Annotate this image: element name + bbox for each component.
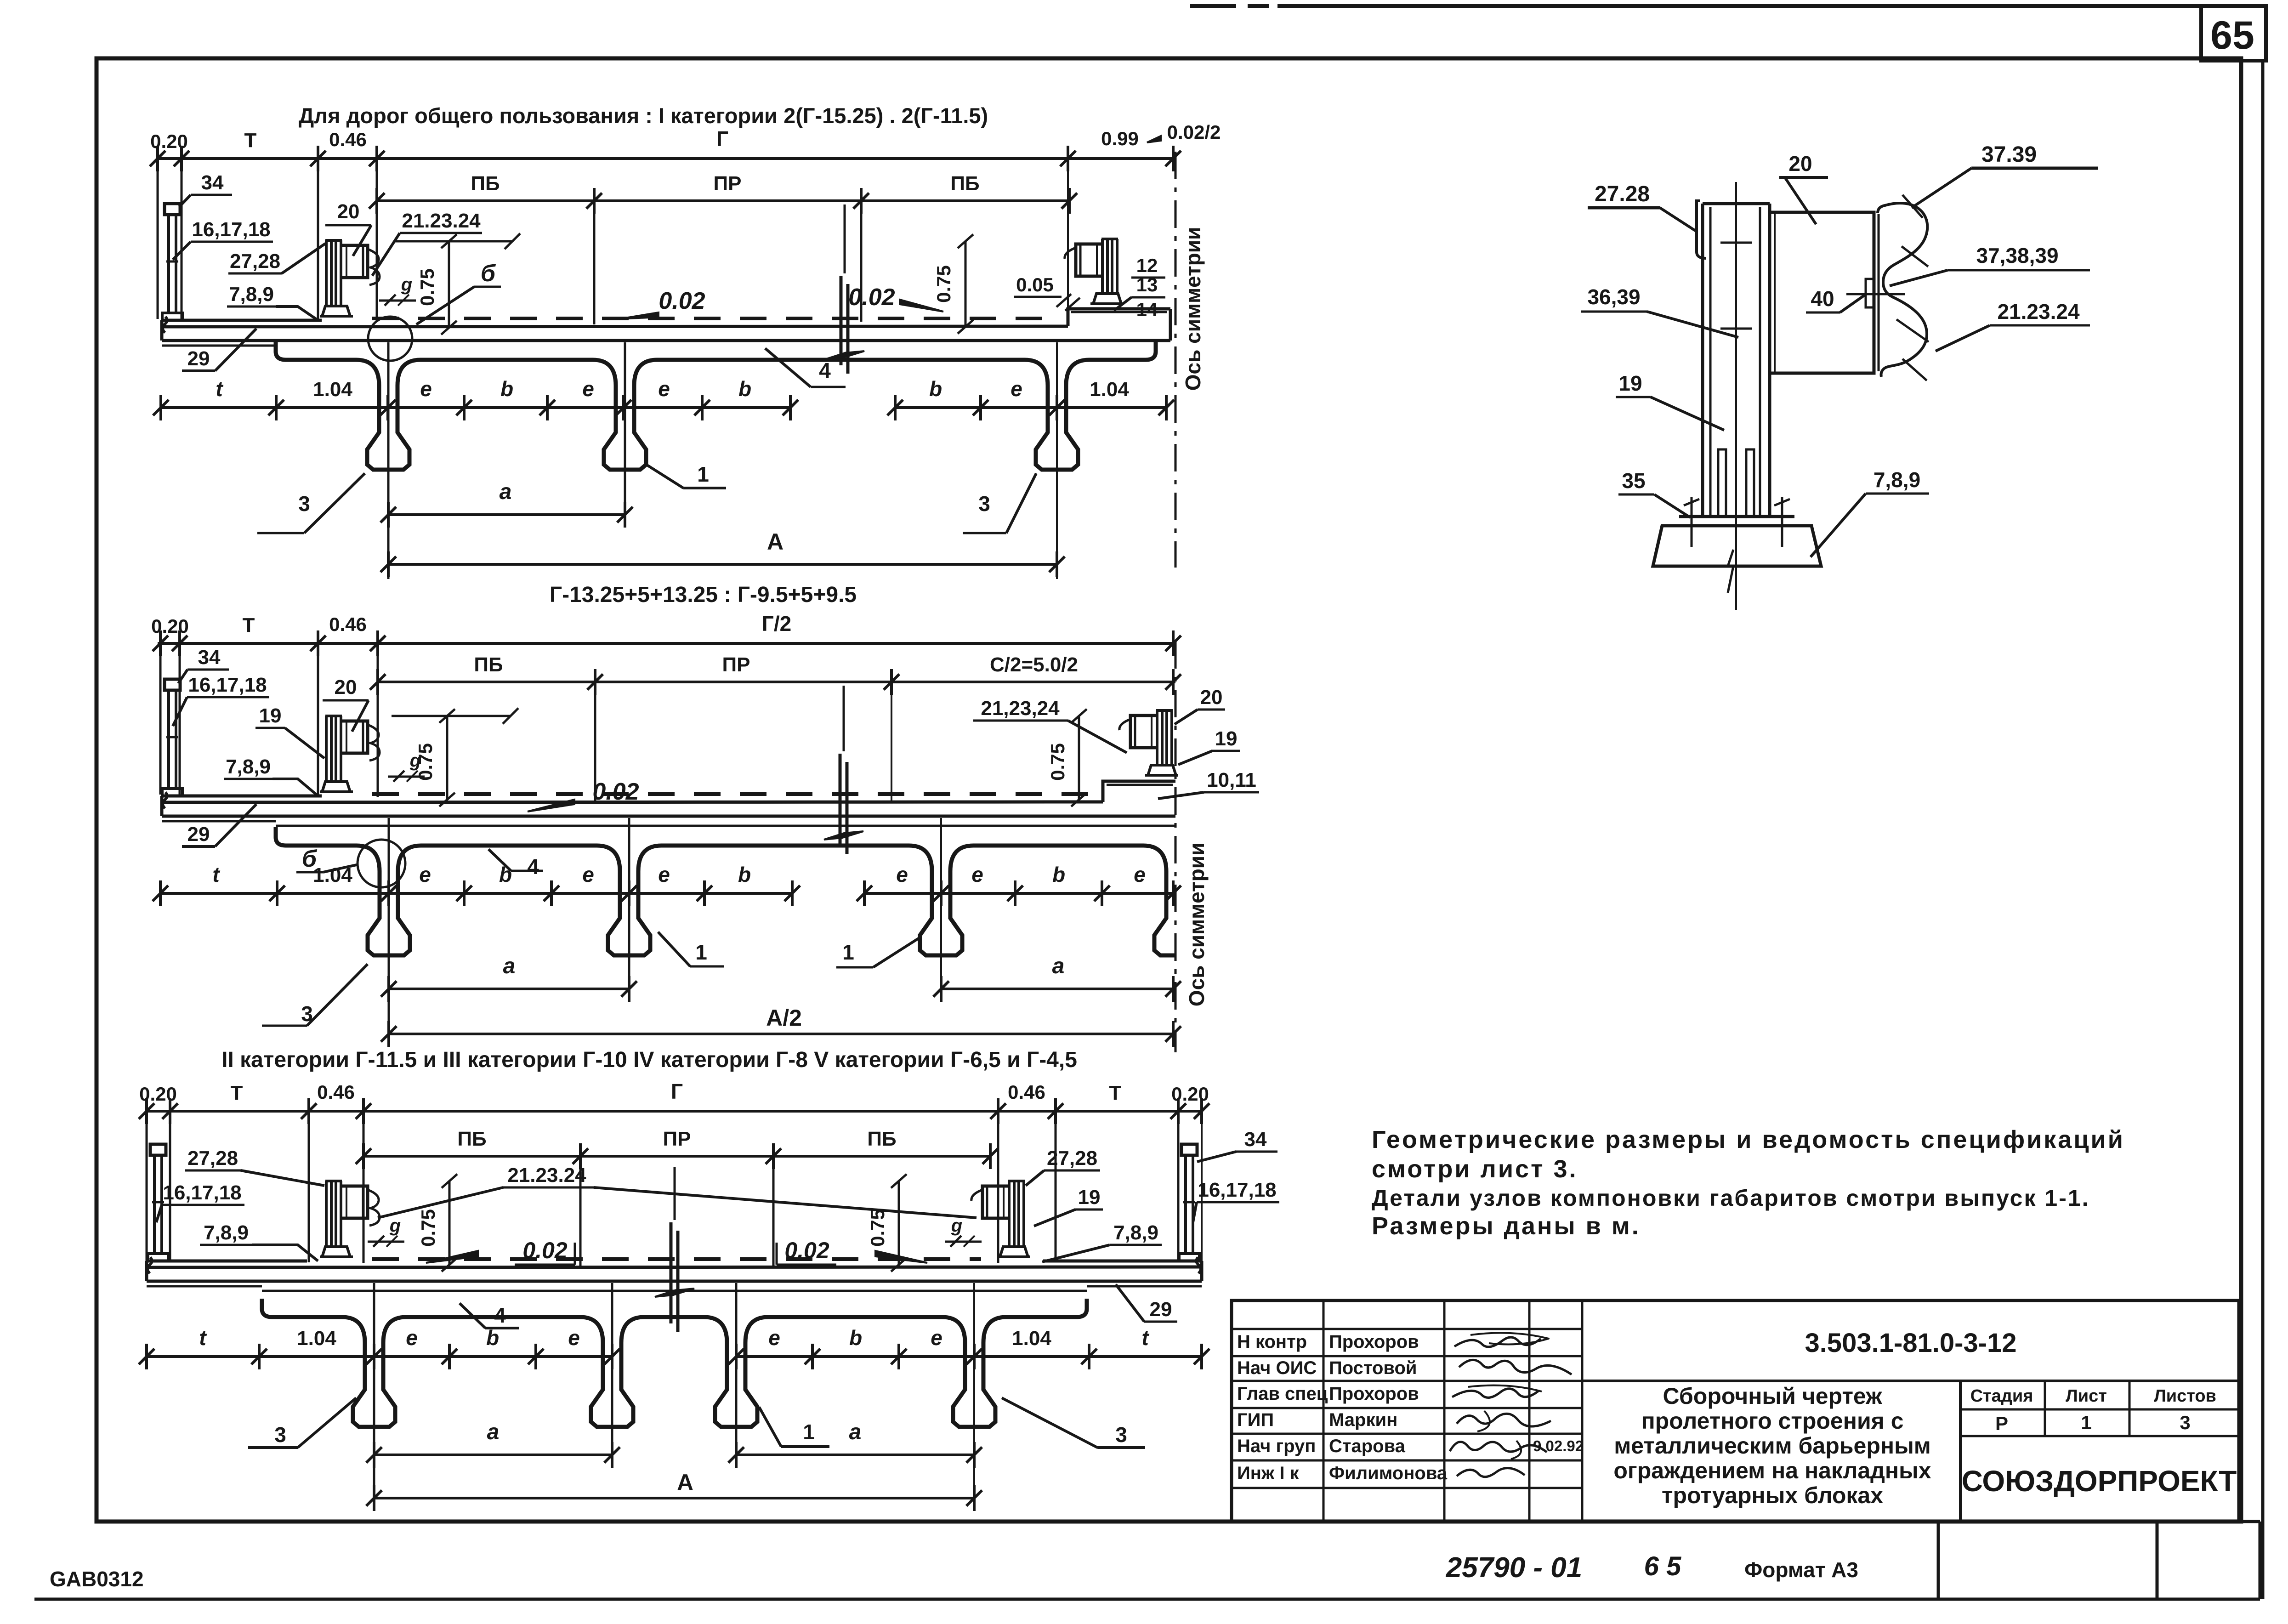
svg-text:0.20: 0.20 — [150, 131, 188, 152]
drawing2 dim line G/2 — [158, 642, 1175, 645]
svg-text:12: 12 — [1136, 255, 1158, 276]
detail bolt plate 40 — [1866, 279, 1874, 307]
svg-text:b: b — [500, 377, 513, 401]
svg-text:1.04: 1.04 — [1012, 1327, 1051, 1350]
svg-text:1: 1 — [803, 1420, 815, 1444]
drawing3 roadway surface — [149, 1267, 1199, 1267]
svg-text:27,28: 27,28 — [230, 250, 280, 273]
svg-text:Г/2: Г/2 — [762, 612, 791, 636]
drawing2 dim line PB PR C/2 — [378, 681, 1175, 683]
detail post channels — [1701, 204, 1704, 517]
svg-text:6 5: 6 5 — [1644, 1551, 1681, 1581]
svg-text:a: a — [849, 1420, 862, 1444]
drawing2 dim 0.75 right — [1078, 716, 1080, 800]
svg-text:3: 3 — [2180, 1412, 2190, 1433]
title block signature rows — [1232, 1328, 1582, 1330]
svg-text:Нач ОИС: Нач ОИС — [1237, 1358, 1317, 1378]
svg-text:35: 35 — [1622, 469, 1645, 493]
svg-text:37.39: 37.39 — [1981, 142, 2037, 167]
drawing3 right barrier — [1022, 1181, 1025, 1247]
drawing1 break mark — [840, 276, 843, 365]
svg-text:20: 20 — [337, 200, 360, 223]
drawing2 left sidewalk deck — [162, 796, 322, 816]
svg-text:Филимонова: Филимонова — [1329, 1463, 1448, 1483]
svg-text:0.46: 0.46 — [329, 613, 367, 635]
svg-text:ГИП: ГИП — [1237, 1410, 1274, 1430]
svg-text:29: 29 — [187, 823, 210, 846]
svg-text:t: t — [216, 377, 223, 401]
drawing2 axis of symmetry — [1175, 641, 1177, 1052]
svg-text:0.75: 0.75 — [416, 268, 438, 306]
svg-text:тротуарных блоках: тротуарных блоках — [1662, 1482, 1883, 1508]
svg-text:пролетного строения с: пролетного строения с — [1641, 1408, 1903, 1434]
svg-text:65: 65 — [2210, 13, 2254, 57]
svg-text:e: e — [406, 1326, 418, 1350]
svg-text:Т: Т — [231, 1082, 243, 1104]
drawing2 projection verticals — [159, 656, 162, 795]
svg-text:0.75: 0.75 — [1047, 743, 1068, 781]
drawing2 slab second line — [276, 825, 1175, 827]
detail clip 27.28 — [1697, 201, 1706, 258]
svg-text:0.02: 0.02 — [522, 1238, 568, 1263]
svg-text:1.04: 1.04 — [313, 378, 352, 401]
svg-text:e: e — [931, 1326, 942, 1350]
svg-text:19: 19 — [259, 704, 282, 727]
svg-text:0.20: 0.20 — [139, 1083, 177, 1105]
svg-text:0.20: 0.20 — [1171, 1083, 1209, 1105]
svg-text:Постовой: Постовой — [1329, 1358, 1417, 1378]
svg-text:0.02: 0.02 — [784, 1238, 829, 1263]
svg-text:7,8,9: 7,8,9 — [1113, 1221, 1158, 1244]
drawing2 dim 0.75 left — [446, 716, 449, 800]
svg-text:Н контр: Н контр — [1237, 1332, 1307, 1352]
svg-text:13: 13 — [1136, 274, 1158, 295]
svg-text:3: 3 — [298, 492, 310, 516]
svg-text:Геометрические размеры и: Геометрические размеры и ведомость специ… — [1372, 1126, 2125, 1153]
svg-text:t: t — [212, 863, 220, 886]
svg-text:1.04: 1.04 — [1090, 378, 1129, 401]
drawing1 slab bottom — [162, 339, 1170, 342]
svg-text:16,17,18: 16,17,18 — [163, 1181, 241, 1204]
svg-text:e: e — [768, 1326, 780, 1350]
svg-text:16,17,18: 16,17,18 — [192, 218, 270, 241]
svg-text:21,23,24: 21,23,24 — [981, 697, 1060, 720]
drawing2 right barrier at axis — [1170, 710, 1173, 766]
drawing3 slab bottom — [147, 1280, 1202, 1283]
drawing3 dim 0.75 right — [898, 1181, 900, 1265]
svg-text:e: e — [568, 1326, 580, 1350]
svg-text:25790 - 01: 25790 - 01 — [1446, 1552, 1582, 1584]
detail W-rail wave profile — [1878, 203, 1927, 377]
stadia grid — [1960, 1408, 2239, 1411]
detail pedestal 7,8,9 — [1653, 526, 1821, 566]
svg-text:29: 29 — [187, 347, 210, 370]
detail W-beam box 20 — [1770, 212, 1874, 373]
svg-text:0.75: 0.75 — [417, 1209, 439, 1247]
drawing3 projection verticals — [146, 1124, 148, 1261]
svg-text:смотри лист 3.: смотри лист 3. — [1372, 1155, 1578, 1183]
svg-text:g: g — [409, 750, 421, 771]
drawing3 dim a left — [374, 1454, 612, 1456]
drawing3 void ceilings — [262, 1299, 365, 1343]
svg-text:Детали узлов компоновки габ: Детали узлов компоновки габаритов смотри… — [1372, 1185, 2090, 1211]
svg-text:ПР: ПР — [714, 172, 742, 195]
drawing1 void ceilings — [276, 341, 379, 386]
svg-text:20: 20 — [335, 676, 357, 698]
svg-text:Т: Т — [243, 614, 255, 636]
svg-text:e: e — [419, 863, 431, 886]
svg-text:Ось симметрии: Ось симметрии — [1181, 227, 1205, 391]
drawing3 roadway dashed line — [372, 1257, 981, 1261]
drawing1 dim line G — [158, 157, 1175, 160]
drawing2 left barrier — [325, 716, 328, 782]
title block right divider — [1582, 1380, 2239, 1382]
svg-text:e: e — [582, 863, 594, 886]
drawing1 right barrier — [1116, 239, 1118, 294]
detail post inner slots — [1718, 449, 1726, 517]
svg-text:Формат А3: Формат А3 — [1744, 1558, 1858, 1582]
svg-text:1: 1 — [695, 940, 707, 964]
svg-text:II категории Г-11.5 и III: II категории Г-11.5 и III категории Г-10… — [221, 1048, 1077, 1072]
drawing2 beams — [368, 871, 410, 955]
svg-text:e: e — [1011, 377, 1022, 401]
detail wave bolt ticks — [1902, 195, 1923, 218]
svg-text:a: a — [503, 954, 516, 978]
drawing3 dim A — [374, 1497, 974, 1499]
svg-text:Прохоров: Прохоров — [1329, 1332, 1419, 1352]
svg-text:4: 4 — [494, 1303, 506, 1327]
svg-text:3: 3 — [274, 1423, 286, 1447]
drawing3 slab second line — [262, 1290, 1087, 1292]
detail base plate — [1679, 515, 1794, 518]
svg-text:Г: Г — [671, 1079, 683, 1103]
svg-text:А: А — [677, 1470, 693, 1495]
drawing1 cantilever soffit — [162, 345, 276, 347]
svg-text:Для дорог общего пользовани: Для дорог общего пользования : I категор… — [299, 103, 988, 128]
title block outer — [1232, 1300, 2239, 1522]
svg-text:37,38,39: 37,38,39 — [1976, 244, 2058, 267]
svg-text:g: g — [401, 274, 412, 295]
svg-text:4: 4 — [527, 855, 539, 879]
detail axis centerline — [1735, 182, 1737, 610]
drawing3 beam dim line — [147, 1355, 612, 1358]
svg-text:a: a — [500, 480, 512, 504]
detail pedestal break mark — [1728, 550, 1733, 593]
drawing1 dim a — [388, 513, 625, 516]
drawing2 beam dim line — [160, 892, 792, 895]
drawing1 dim 0.75 left — [448, 241, 450, 328]
svg-text:36,39: 36,39 — [1587, 285, 1640, 309]
svg-text:Р: Р — [1995, 1413, 2008, 1434]
drawing2 dim a left — [389, 988, 629, 990]
svg-text:10,11: 10,11 — [1207, 769, 1256, 791]
svg-text:Ось симметрии: Ось симметрии — [1185, 843, 1209, 1007]
drawing3 beam center projection lines — [373, 1283, 375, 1506]
svg-text:21.23.24: 21.23.24 — [507, 1164, 586, 1187]
drawing2 half beam at axis — [1154, 871, 1175, 955]
drawing1 left sidewalk deck — [162, 320, 322, 341]
svg-text:0.46: 0.46 — [1008, 1081, 1045, 1103]
svg-text:e: e — [658, 863, 670, 886]
svg-text:a: a — [487, 1420, 500, 1444]
svg-text:19: 19 — [1618, 371, 1642, 395]
svg-text:27,28: 27,28 — [187, 1147, 238, 1170]
svg-text:7,8,9: 7,8,9 — [229, 283, 274, 306]
svg-text:21.23.24: 21.23.24 — [1997, 300, 2079, 324]
svg-text:34: 34 — [198, 646, 221, 669]
svg-text:20: 20 — [1788, 152, 1812, 176]
outer right margin line — [2261, 61, 2265, 1599]
svg-text:Г: Г — [716, 127, 728, 151]
svg-text:ПБ: ПБ — [457, 1128, 486, 1150]
detail bolt axis line — [1846, 293, 1905, 295]
svg-text:Т: Т — [1109, 1082, 1122, 1104]
drawing3 left railing — [150, 1144, 166, 1155]
svg-text:ПБ: ПБ — [950, 172, 979, 195]
svg-text:t: t — [1141, 1326, 1149, 1350]
drawing1 beams — [367, 386, 409, 470]
svg-text:9.02.92: 9.02.92 — [1533, 1437, 1584, 1454]
svg-text:e: e — [582, 377, 594, 401]
svg-text:40: 40 — [1811, 287, 1834, 311]
svg-text:3: 3 — [1115, 1423, 1127, 1447]
drawing1 dim A — [388, 563, 1057, 566]
drawing2 void ceilings — [276, 827, 380, 871]
drawing3 right railing — [1181, 1144, 1197, 1155]
detail base bolts — [1691, 497, 1693, 547]
svg-text:Прохоров: Прохоров — [1329, 1384, 1419, 1404]
svg-text:А/2: А/2 — [766, 1005, 802, 1031]
drawing3 right sidewalk deck — [1043, 1261, 1202, 1281]
svg-text:0.46: 0.46 — [317, 1081, 355, 1103]
svg-text:e: e — [658, 377, 670, 401]
svg-text:Стадия: Стадия — [1970, 1386, 2033, 1406]
drawing1 dim 0.75 right — [965, 241, 967, 327]
drawing1 roadway surface — [164, 326, 1068, 327]
svg-text:ПР: ПР — [663, 1128, 691, 1150]
svg-text:34: 34 — [1244, 1128, 1267, 1151]
svg-text:0.02: 0.02 — [848, 284, 895, 311]
drawing3 dim line G — [146, 1110, 1203, 1113]
svg-text:27.28: 27.28 — [1595, 182, 1650, 206]
svg-text:3.503.1-81.0-3-12: 3.503.1-81.0-3-12 — [1805, 1328, 2016, 1358]
svg-text:0.46: 0.46 — [329, 129, 367, 150]
svg-text:14: 14 — [1136, 299, 1158, 320]
svg-text:3: 3 — [978, 492, 990, 516]
drawing2 dim A/2 — [389, 1033, 1175, 1035]
drawing3 dim 0.75 left — [449, 1181, 451, 1265]
drawing3 break mark — [670, 1222, 673, 1323]
svg-text:б: б — [302, 846, 318, 872]
svg-text:1.04: 1.04 — [297, 1327, 336, 1350]
svg-text:0.02/2: 0.02/2 — [1167, 121, 1221, 143]
svg-text:t: t — [199, 1326, 207, 1350]
svg-text:0.75: 0.75 — [933, 265, 954, 303]
svg-text:0.20: 0.20 — [151, 615, 189, 637]
svg-text:Лист: Лист — [2066, 1386, 2107, 1406]
svg-text:Инж I к: Инж I к — [1237, 1463, 1300, 1483]
signatures scribbles — [1454, 1337, 1541, 1347]
svg-text:Глав спец: Глав спец — [1237, 1384, 1328, 1404]
svg-text:0.05: 0.05 — [1016, 274, 1054, 295]
svg-text:С/2=5.0/2: С/2=5.0/2 — [990, 653, 1078, 676]
svg-text:Нач груп: Нач груп — [1237, 1436, 1316, 1456]
bottom strip box — [34, 1598, 2260, 1601]
svg-text:19: 19 — [1215, 727, 1238, 750]
title block signature columns — [1323, 1300, 1325, 1522]
svg-text:b: b — [929, 377, 942, 401]
svg-text:Маркин: Маркин — [1329, 1410, 1397, 1430]
drawing2 left railing — [165, 679, 180, 690]
svg-text:7,8,9: 7,8,9 — [1874, 468, 1920, 492]
svg-text:e: e — [1134, 863, 1146, 886]
svg-text:Г-13.25+5+13.25 : Г-9.5+5+9.: Г-13.25+5+13.25 : Г-9.5+5+9.5 — [550, 583, 857, 607]
svg-text:ПБ: ПБ — [867, 1128, 896, 1150]
svg-text:Старова: Старова — [1329, 1436, 1406, 1456]
svg-text:металлическим барьерным: металлическим барьерным — [1614, 1433, 1931, 1459]
svg-text:b: b — [849, 1326, 862, 1350]
svg-text:7,8,9: 7,8,9 — [226, 755, 271, 778]
page number box 65 — [2201, 6, 2266, 61]
svg-text:Листов: Листов — [2154, 1386, 2216, 1406]
drawing3 left barrier — [325, 1181, 328, 1247]
detail post center ticks — [1720, 242, 1752, 244]
svg-text:21.23.24: 21.23.24 — [402, 210, 481, 232]
svg-text:b: b — [738, 377, 751, 401]
drawing1 axis of symmetry — [1175, 152, 1177, 568]
svg-text:Т: Т — [244, 129, 257, 152]
drawing1 dim line PB PR PB — [377, 199, 1069, 202]
svg-text:0.02: 0.02 — [592, 778, 639, 805]
svg-text:34: 34 — [201, 171, 224, 194]
drawing1 left railing — [165, 204, 180, 215]
svg-text:20: 20 — [1200, 686, 1223, 709]
svg-text:29: 29 — [1150, 1298, 1172, 1321]
svg-text:7,8,9: 7,8,9 — [204, 1221, 249, 1244]
svg-text:g: g — [389, 1215, 401, 1236]
drawing2 dim a right — [941, 988, 1175, 990]
svg-text:ПБ: ПБ — [474, 653, 503, 676]
svg-text:ограждением на накладных: ограждением на накладных — [1613, 1458, 1931, 1483]
drawing1 roadway dashed line — [372, 317, 1057, 320]
svg-text:b: b — [738, 863, 751, 886]
drawing2 break mark — [839, 754, 842, 846]
drawing2 slab bottom — [162, 815, 1175, 818]
drawing1 beam dim line — [161, 406, 790, 409]
svg-text:19: 19 — [1078, 1186, 1101, 1209]
svg-text:ПБ: ПБ — [471, 172, 500, 195]
svg-text:0.99: 0.99 — [1101, 128, 1139, 149]
drawing2 roadway dashed line — [372, 792, 1094, 796]
svg-text:e: e — [420, 377, 432, 401]
svg-text:0.02: 0.02 — [659, 288, 705, 314]
svg-text:А: А — [767, 529, 783, 555]
svg-text:1: 1 — [2081, 1412, 2091, 1433]
svg-text:16,17,18: 16,17,18 — [1198, 1179, 1276, 1201]
svg-text:GAB0312: GAB0312 — [50, 1567, 144, 1591]
svg-text:ПР: ПР — [722, 653, 750, 676]
drawing1 right curb block — [1068, 309, 1170, 341]
drawing1 projection verticals — [157, 171, 159, 319]
drawing2 roadway surface — [164, 802, 1103, 802]
svg-text:Размеры даны в м.: Размеры даны в м. — [1372, 1212, 1641, 1240]
drawing2 beam center projection lines — [388, 818, 390, 1047]
svg-text:б: б — [481, 260, 496, 287]
svg-text:a: a — [1052, 954, 1065, 978]
svg-text:0.75: 0.75 — [867, 1209, 888, 1247]
svg-text:16,17,18: 16,17,18 — [188, 674, 267, 696]
drawing3 dim a right — [736, 1454, 974, 1456]
svg-text:1: 1 — [697, 462, 709, 486]
svg-text:g: g — [951, 1215, 962, 1236]
svg-text:27,28: 27,28 — [1047, 1147, 1097, 1170]
svg-text:4: 4 — [819, 358, 831, 382]
svg-text:e: e — [896, 863, 908, 886]
drawing3 left sidewalk deck — [147, 1261, 307, 1281]
svg-text:1: 1 — [842, 940, 854, 964]
drawing1 left barrier — [325, 240, 328, 307]
svg-text:СОЮЗДОРПРОЕКТ: СОЮЗДОРПРОЕКТ — [1962, 1465, 2237, 1498]
sheet top edge line — [1277, 4, 2266, 8]
svg-text:e: e — [971, 863, 983, 886]
drawing3 beams — [353, 1343, 395, 1427]
svg-text:b: b — [1052, 863, 1065, 886]
drawing2 right curb block — [1103, 781, 1175, 802]
drawing3 dim line PB PR PB — [363, 1155, 990, 1158]
svg-text:Сборочный чертеж: Сборочный чертеж — [1663, 1383, 1882, 1409]
drawing1 beam center projection lines — [387, 342, 390, 579]
title box divider — [1959, 1381, 1962, 1522]
